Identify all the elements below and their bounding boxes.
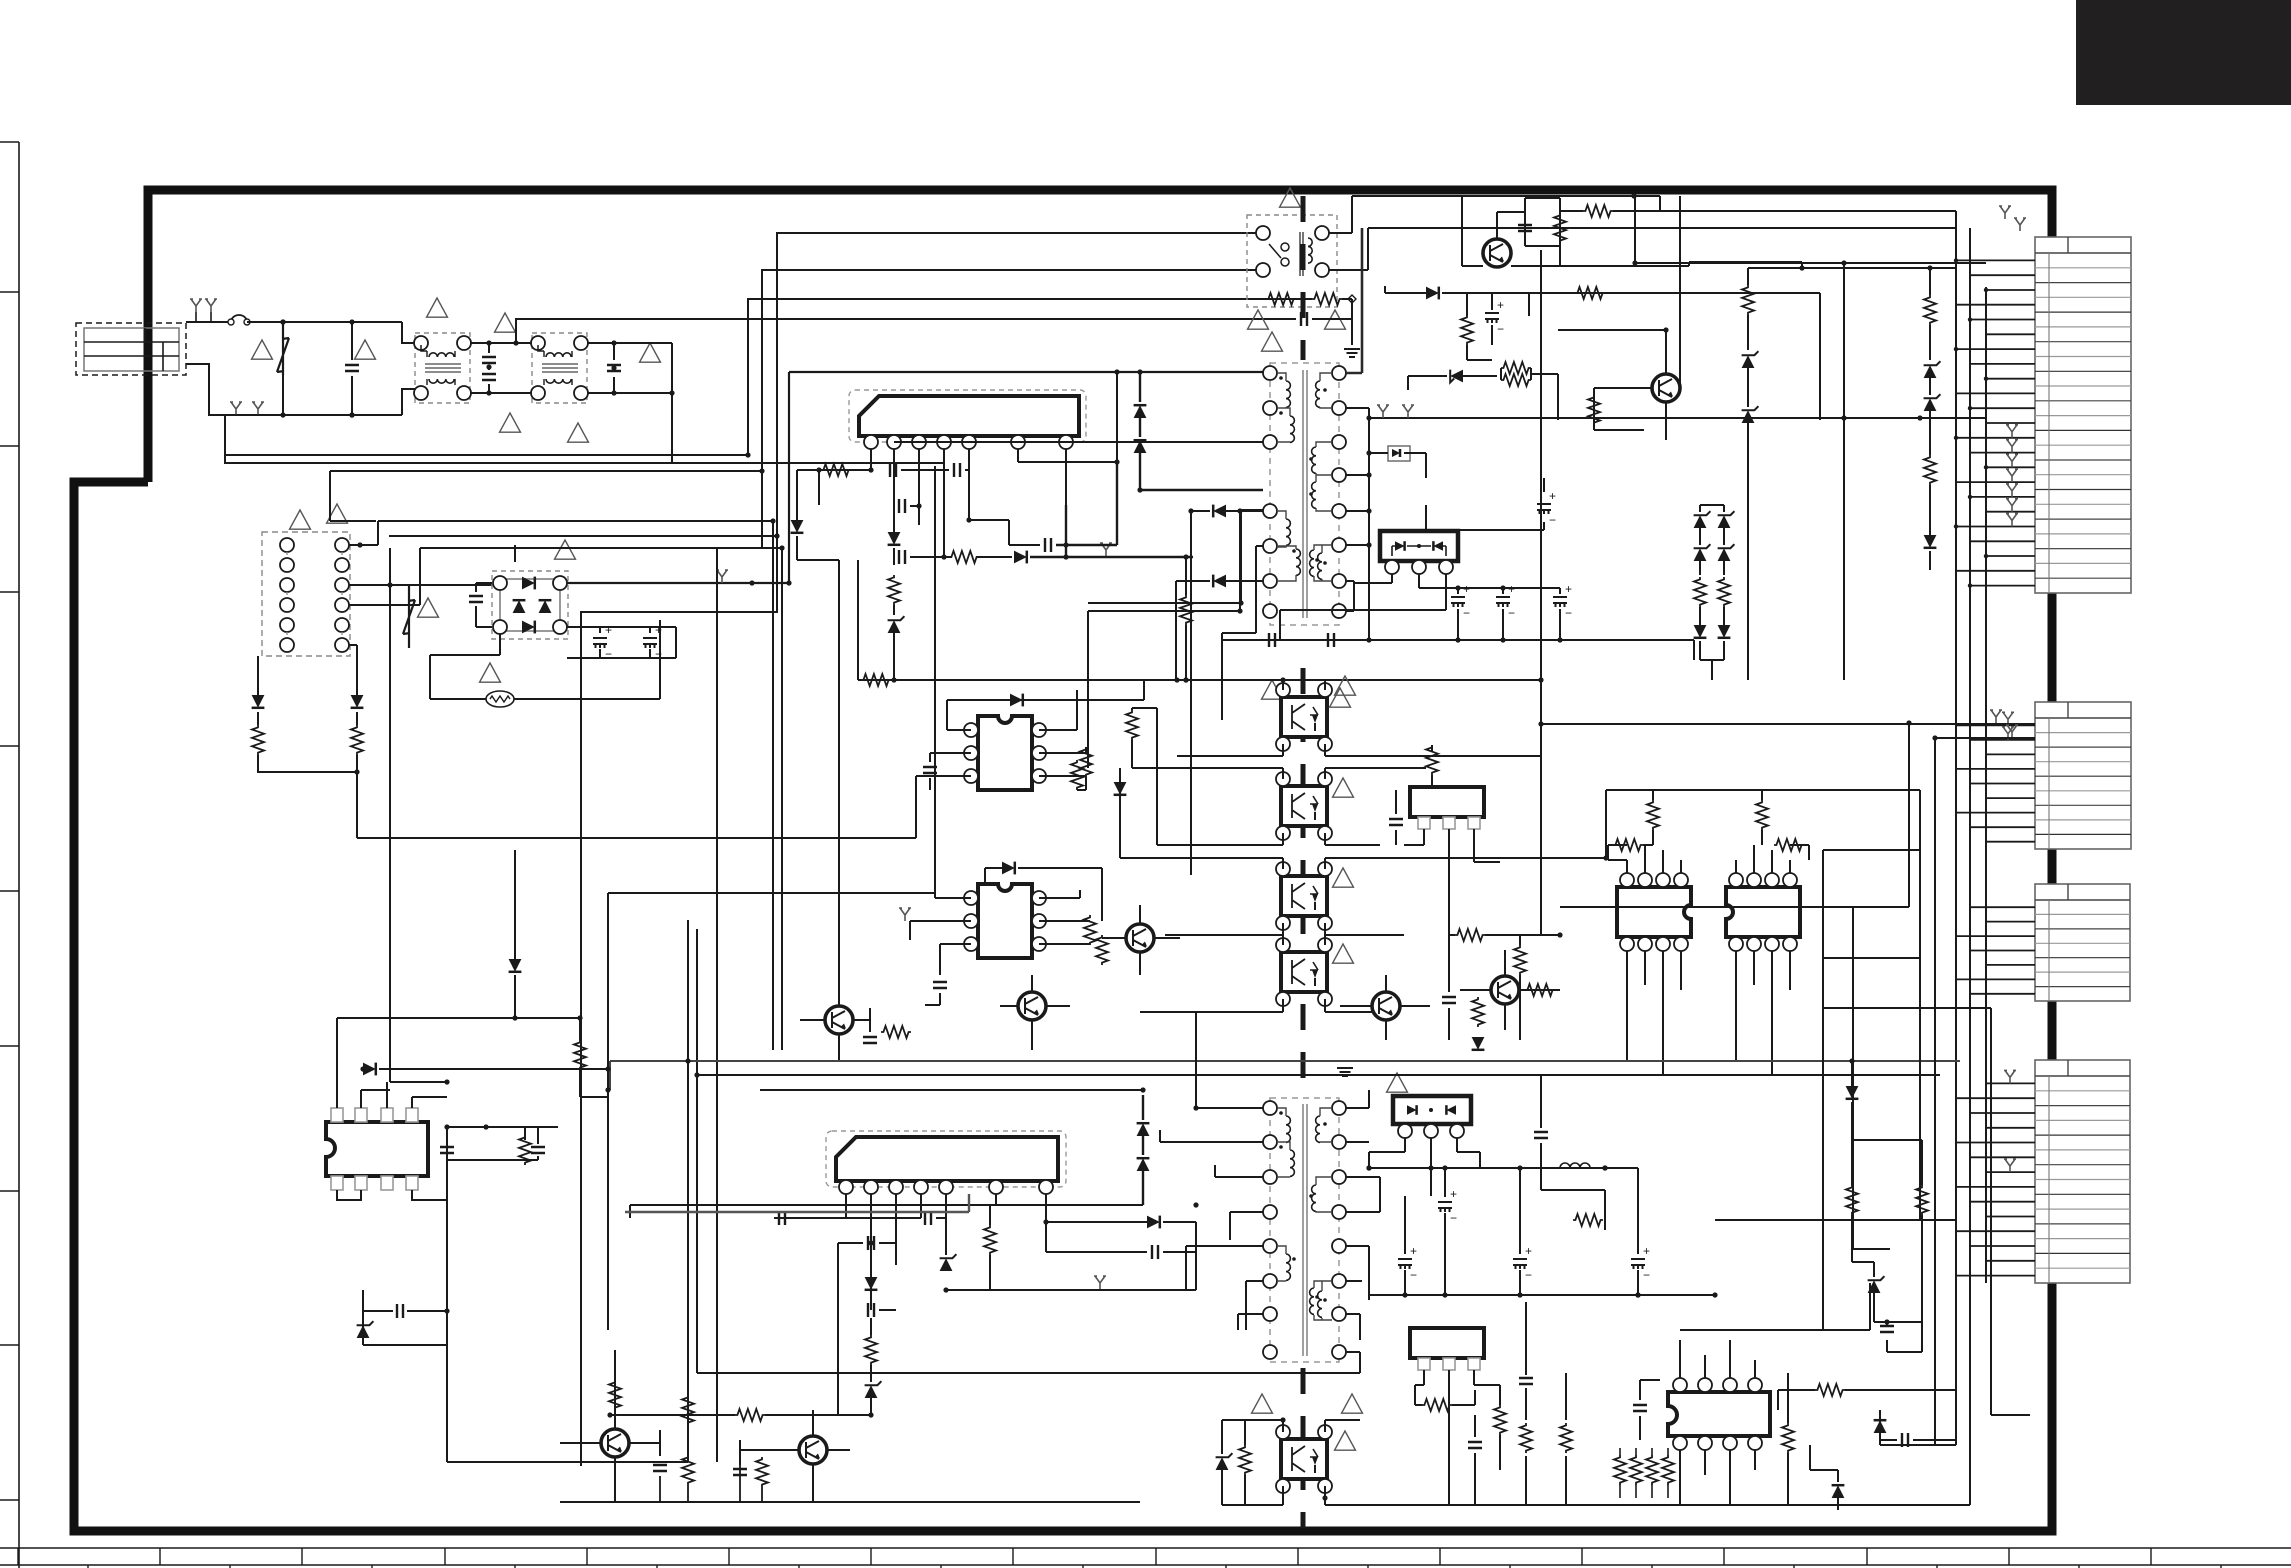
rail 680 [894,679,1283,681]
junction [607,1412,612,1417]
relay contacts [1281,243,1289,251]
wire fuse to filter [247,321,402,323]
wire [1723,561,1725,575]
opto pin [1276,737,1290,751]
electrolytic C16 [1553,597,1567,607]
PC5 wires [1230,1420,1540,1505]
vert 1909 [1560,723,1909,907]
IC7 pin 10 [381,1176,393,1190]
junction [349,319,354,324]
degauss pin R5 [335,618,349,632]
IC pin [1765,937,1779,951]
module diode [1407,1105,1417,1115]
title block [2076,0,2291,105]
rail 958 [1823,957,1920,959]
resistor R19 [1126,710,1138,740]
wire [610,1218,630,1415]
resistor R48 [1239,1445,1251,1475]
svg-text:−: − [1643,1268,1650,1282]
warning triangle [290,510,311,529]
capacitor C20 [933,982,947,988]
capacitor C13 [1328,633,1334,647]
zener ZD1 [888,620,901,633]
T2 right pin 5 [1332,1239,1346,1253]
module pin [1424,1124,1438,1138]
warning triangle [640,343,661,362]
resistor [1614,1455,1626,1485]
IC10 pin top 3 [1723,1378,1737,1392]
resistor R36 [865,1335,877,1365]
zener ZD3 [1742,355,1755,368]
warning triangle [1330,688,1351,707]
junction [280,412,285,417]
rail 1090-1566 [1560,934,1920,936]
wire [916,778,930,838]
zener [1694,515,1707,528]
zener ZD4 [1742,410,1755,423]
chassis ground [252,402,264,415]
junction [512,1015,517,1020]
wire choke2 out [587,343,672,393]
svg-text:−: − [1410,1268,1417,1282]
resistor R15 [1588,395,1600,425]
wire [894,679,1426,681]
chassis ground [1990,710,2002,723]
T2 right pin 4 [1332,1205,1346,1219]
IC pin [1638,937,1652,951]
T2 left pin 8 [1263,1345,1277,1359]
rail CN4 b [1715,1219,1956,1221]
chassis ground [1402,405,1414,418]
wire [363,1310,447,1312]
zener ZD6 [1924,398,1937,411]
module diode a [1395,541,1405,551]
wire [1131,708,1133,768]
junction [1140,1087,1145,1092]
IC7 body [326,1122,428,1176]
junction [605,1066,610,1071]
warning triangle [1262,680,1283,699]
chassis ground [2006,454,2018,467]
resistor R27 [1426,745,1438,775]
junction [891,677,896,682]
junction [1114,369,1119,374]
wire N from inlet [186,364,415,415]
diode D5 [1014,551,1027,564]
IC10 body [1668,1392,1770,1436]
IC10 pin top 1 [1673,1378,1687,1392]
PC2 wires [1132,768,1426,845]
rail 1050 left [575,1049,800,1051]
svg-text:+: + [1643,1244,1650,1258]
left ruler ticks [0,142,19,1500]
T2 right pin 3 [1332,1170,1346,1184]
wire [1046,1240,1196,1252]
capacitor C39 [653,1465,667,1471]
wire D9 net [1176,581,1263,680]
diode D12 [1924,535,1937,548]
wire [1475,1385,1500,1470]
junction [1635,1292,1640,1297]
IC1 pin 7 [1059,435,1073,449]
junction [1984,288,1988,292]
capacitor C22 [1389,819,1403,825]
warning triangle [1262,332,1283,351]
T1 sec links [1314,373,1332,581]
controller IC3 [978,884,1032,958]
IC pin [1783,937,1797,951]
rail 724 [1541,724,2035,756]
wire [687,1373,689,1455]
junction [1984,554,1988,558]
wire L to fuse [186,321,231,323]
transistor Q7 [1491,976,1519,1004]
capacitor C25 [531,1147,545,1153]
T1 primary coil c [1286,519,1290,545]
connector CN2 [2035,702,2131,849]
transistor Q6 [1372,992,1400,1020]
resistor R17 [1924,295,1936,325]
resistor R8 [1266,293,1296,305]
transformer T1 core [1303,370,1307,618]
wire IC8 left [845,1217,847,1219]
resistor R28 [1455,929,1485,941]
wire long 935 [934,466,936,893]
connector stack note wire [2048,196,2057,237]
IC pin [1765,873,1779,887]
junction [1517,1165,1522,1170]
resistor R21 [1071,760,1083,790]
resistor R32 [1774,839,1804,851]
IC7 pin 11 [406,1176,418,1190]
wire [838,1243,896,1415]
relay coil [1308,238,1312,263]
junction [1280,677,1285,682]
degauss connector outline [262,532,350,656]
wire [1467,345,1492,360]
svg-text:−: − [1525,1268,1532,1282]
optocoupler PC2 [1281,786,1327,826]
resistor R50 [1916,1185,1928,1215]
resistor R31 [1647,800,1659,830]
IC pin [1032,914,1046,928]
wire [1879,1410,1881,1440]
IC1 pin 5 [962,435,976,449]
IC pin [964,914,978,928]
capacitor C38 [1902,1433,1908,1447]
CN1 row wires [1956,260,2035,585]
pin [493,620,507,634]
pin [553,576,567,590]
wire [1723,641,1725,660]
rail 1008 [1823,1008,2030,1415]
resistor R46 [682,1395,694,1425]
T2 left pin 5 [1263,1239,1277,1253]
IC8 pin 1 [839,1180,853,1194]
wire [1185,557,1187,680]
junction [694,1072,699,1077]
wire bottom rail [560,1501,1140,1503]
wire [871,1293,896,1335]
wire T1 s2-s5 bus [1346,408,1369,640]
wire module [1280,574,1560,640]
zener [1718,515,1731,528]
capacitor C36 [1468,1442,1482,1448]
chassis ground [2002,712,2014,725]
IC4 wires [1404,829,1500,880]
junction [1137,369,1142,374]
junction [1043,1219,1048,1224]
IC6 bottom nets [1736,951,1790,1075]
bridge diode [522,621,535,634]
wire [514,850,516,959]
wire x388 to IC [390,1081,447,1083]
IC10 pin bot 3 [1723,1436,1737,1450]
capacitor C44 [1519,1378,1533,1384]
IC1 pin 2 [887,435,901,449]
wire degauss top [349,521,390,1082]
resistor R33 [1756,800,1768,830]
IC8 pin 2 [864,1180,878,1194]
junction [1280,1417,1285,1422]
svg-text:−: − [1508,606,1515,620]
rail CN4 c [1956,1390,1970,1505]
degauss pin L1 [280,538,294,552]
diode D3 [791,520,804,533]
transformer T2 core [1303,1104,1307,1356]
wire bridge bottom loop [430,620,660,699]
resistor R16 [1742,285,1754,315]
resistor R39 [1573,1214,1603,1226]
diode D22 [1137,1158,1150,1171]
diode D14 [1010,694,1023,707]
T1 primary pin 4 [1263,504,1277,518]
rail 418 grounds [1369,417,1986,419]
warning triangle [1333,778,1354,797]
wire rail 266ext [1802,267,1956,269]
bottom ruler lines [0,1548,2291,1565]
T2 left pin 2 [1263,1135,1277,1149]
wire [901,469,969,471]
pin [531,336,545,350]
connector CN4 [2035,1060,2130,1283]
chassis ground [2006,469,2018,482]
vertical 1541b [1541,756,1560,935]
wire [1699,641,1701,660]
resistor R9 [1312,293,1342,305]
T2 left pin 1 [1263,1101,1277,1115]
wire IC1 p6 [1018,372,1117,462]
capacitor C21 [863,1037,877,1043]
wire stair1 [581,233,1263,1466]
junction [1884,1319,1889,1324]
resistor R34 [519,1135,531,1165]
junction [1663,327,1668,332]
junction [1366,542,1371,547]
wire T1 s6s8 [1346,581,1354,611]
junction [868,1240,873,1245]
svg-text:−: − [1450,1211,1457,1225]
junction [1237,508,1242,513]
resistor R1 [252,725,264,755]
zener ZD7 [357,1325,370,1338]
chassis ground [2006,725,2018,738]
svg-text:+: + [1508,582,1515,596]
chassis ground [205,299,217,312]
svg-text:+: + [1410,1244,1417,1258]
module diode b [1433,541,1443,551]
junction [360,1066,365,1071]
IC8 pin 5 [939,1180,953,1194]
IC1 pin 3 [912,435,926,449]
T1 primary pin 7 [1263,604,1277,618]
wire R42 [1778,1390,1956,1410]
wire T1 bottom [1222,633,1560,720]
bridge diode [513,600,526,613]
IC pin [1032,746,1046,760]
IC9 wires [1415,1370,1500,1415]
rail bottom bus1 [610,1061,1960,1090]
left rail optos [1120,708,1157,858]
junction [1183,554,1188,559]
resistor R25 [1472,997,1484,1027]
CN3 row wires [1956,907,2035,994]
opto pin [1276,916,1290,930]
IC8 pin 6 [989,1180,1003,1194]
IC3 wires [910,890,1090,975]
warning triangle [1387,1073,1408,1092]
wire ecaps [1458,588,1560,640]
resistor [1694,577,1706,607]
IC5 top nets [1608,845,1681,873]
diamond node [1348,295,1356,303]
wire [1511,262,1802,268]
pin [457,336,471,350]
junction [280,319,285,324]
wire IC2 out [1077,680,1144,700]
electrolytic C35 [1631,1259,1645,1269]
wire Q1 net [1462,196,1560,266]
IC pin [1729,873,1743,887]
wire [235,414,237,415]
wire [1449,880,1541,935]
junction [1841,260,1846,265]
wire [488,367,490,370]
junction [1193,1202,1198,1207]
junction [611,390,616,395]
wire [1929,378,1931,395]
junction [1632,260,1637,265]
warning triangle [500,413,521,432]
wire bridge B- [499,634,501,644]
warning triangle [495,313,516,332]
IC1 pin wires [871,449,1066,557]
T1 secondary pin 7 [1332,574,1346,588]
wire [1723,505,1725,512]
resistor R18 [1924,455,1936,485]
chassis ground [2004,1159,2016,1172]
photodiode [1392,449,1400,457]
T1 primary pin 2 [1263,401,1277,415]
wire zl [1700,505,1724,680]
junction [1442,1292,1447,1297]
wire ZD10 net [1222,1420,1283,1505]
junction [512,963,517,968]
T2 coils R [1316,1116,1320,1142]
opto pin [1318,772,1332,786]
wire degauss 605 [349,545,515,605]
line filter choke L2 [532,333,587,403]
wire [210,312,212,322]
T1 secondary pin 2 [1332,401,1346,415]
warning triangle [252,340,273,359]
wire stair5 [389,535,777,537]
T2 right wires [1346,1090,1380,1373]
svg-text:−: − [1549,513,1556,527]
junction [1954,347,1958,351]
vert 1935 [1934,738,1936,1445]
opto pin [1318,938,1332,952]
opto pin [1276,683,1290,697]
diode D15 [1002,862,1015,875]
regulator IC9 [1410,1328,1484,1358]
T2 left pin 4 [1263,1205,1277,1219]
diode D7 [1134,440,1147,453]
T1 secondary pin 1 [1332,366,1346,380]
resistor R2 [351,725,363,755]
wire 1290 rail [946,1252,1196,1290]
junction [1841,415,1846,420]
wire [282,375,284,415]
transistor Q5 [1126,924,1154,952]
wire rails above IC56 [1541,790,1920,858]
wire [580,1070,608,1097]
degauss pin L5 [280,618,294,632]
hybrid IC IC8 body [836,1137,1058,1181]
wire D11 [1385,286,1529,316]
reset IC5 [1617,887,1691,937]
junction [1799,265,1804,270]
wire [894,498,919,525]
junction [1237,608,1242,613]
wire long 905 [600,920,910,922]
wire [1143,1205,1196,1222]
warning triangle [480,663,501,682]
transistor Q4 [1018,992,1046,1020]
transistor Q8 [601,1429,629,1457]
wire [1880,1439,1956,1441]
diode D11 [1426,287,1439,300]
wire N rail right [672,463,944,557]
wire [1748,268,1802,350]
IC pin [1032,891,1046,905]
Q6 wires [1340,975,1430,1040]
resistor R52 [1560,1423,1572,1453]
IC10 bottom wires [1680,1450,1755,1505]
transistor Q3 [825,1006,853,1034]
T2 coils L [1286,1116,1290,1142]
junction [357,542,362,547]
junction [1602,1165,1607,1170]
wire aux [969,520,1040,545]
capacitor C29 [868,1236,874,1250]
resistor R7 [1180,595,1192,625]
wire relay right2 [1329,228,1956,270]
junction [1366,637,1371,642]
degauss pin R3 [335,578,349,592]
T1 primary pin 3 [1263,435,1277,449]
wire C18 [1467,293,1492,345]
